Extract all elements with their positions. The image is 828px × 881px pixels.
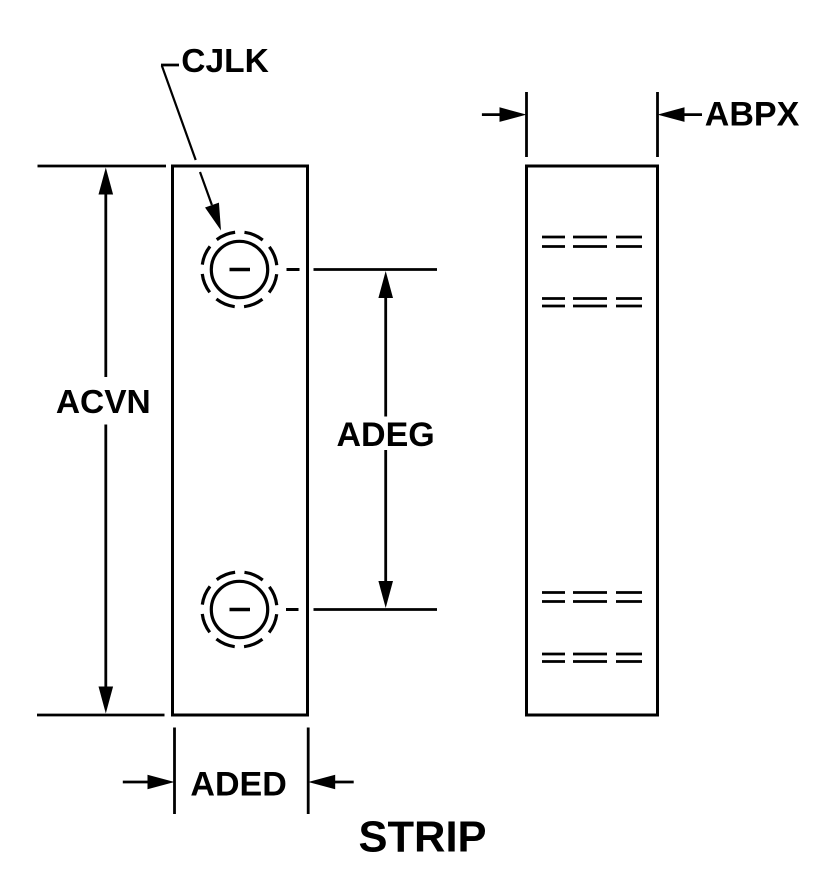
svg-text:ACVN: ACVN <box>56 384 151 421</box>
svg-text:CJLK: CJLK <box>181 43 268 80</box>
svg-text:STRIP: STRIP <box>358 814 486 862</box>
svg-text:ADEG: ADEG <box>336 416 434 454</box>
svg-text:ADED: ADED <box>190 766 286 804</box>
svg-text:ABPX: ABPX <box>705 95 800 133</box>
